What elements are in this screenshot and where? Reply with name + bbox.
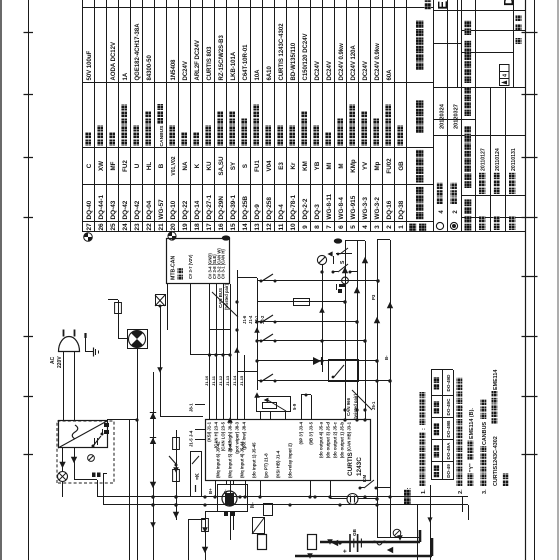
connector X box bbox=[155, 295, 166, 307]
svg-text:EME114 (B).: EME114 (B). bbox=[469, 408, 475, 439]
svg-text:FU2: FU2 bbox=[122, 160, 129, 172]
svg-text:1243C: 1243C bbox=[356, 457, 363, 476]
battery cable bends bbox=[296, 530, 433, 556]
junction dots and wire arrows bbox=[150, 270, 403, 558]
svg-text:MI: MI bbox=[326, 162, 333, 169]
bottom left cable y417 bbox=[417, 505, 419, 560]
fuse FU02 on battery cable bbox=[258, 535, 267, 550]
battery cable B+ thick bbox=[320, 541, 420, 544]
svg-text:B+: B+ bbox=[208, 488, 213, 494]
wire rail y205 bbox=[202, 512, 240, 560]
svg-text:4: 4 bbox=[503, 74, 509, 77]
controller inner pin labels lower bbox=[216, 441, 293, 478]
ground symbol bbox=[86, 348, 99, 357]
svg-text:CAN 966: CAN 966 bbox=[346, 397, 351, 416]
svg-text:EME114: EME114 bbox=[493, 370, 499, 390]
BOM table grid bbox=[82, 0, 434, 232]
charger U box bbox=[58, 421, 109, 449]
svg-text:DO-49B: DO-49B bbox=[446, 420, 451, 438]
svg-text:QGE182-4CH17-38A: QGE182-4CH17-38A bbox=[135, 23, 141, 81]
svg-text:FU02: FU02 bbox=[386, 158, 393, 174]
svg-text:50V 100uF: 50V 100uF bbox=[87, 50, 93, 80]
svg-text:1: 1 bbox=[398, 225, 405, 229]
harness wires to terminals bbox=[342, 241, 368, 420]
controller inner pin labels right bbox=[207, 421, 352, 458]
model number big text EME bbox=[435, 0, 450, 10]
svg-text:DQ-27-1: DQ-27-1 bbox=[206, 195, 213, 220]
svg-text:DQ-258: DQ-258 bbox=[266, 197, 273, 220]
svg-text:DQ-10: DQ-10 bbox=[170, 200, 177, 219]
svg-text:DQ-42: DQ-42 bbox=[134, 200, 141, 219]
svg-text:(do-relay input 2): (do-relay input 2) bbox=[288, 443, 293, 478]
svg-text:8: 8 bbox=[314, 225, 321, 229]
sheet frame bottom border lines with fold ticks bbox=[522, 0, 538, 560]
svg-text:V04: V04 bbox=[266, 160, 273, 172]
svg-text:C: C bbox=[86, 163, 93, 168]
svg-text:20: 20 bbox=[170, 223, 177, 231]
terminal dot on handset box bbox=[222, 235, 230, 240]
long rail y137 bbox=[135, 349, 138, 560]
svg-text:YB: YB bbox=[314, 161, 321, 170]
note 1 connection mini table bbox=[431, 370, 454, 481]
svg-text:C# 3-1 (CAN H): C# 3-1 (CAN H) bbox=[221, 249, 226, 279]
svg-text:15: 15 bbox=[230, 223, 237, 231]
svg-text:GB: GB bbox=[398, 161, 405, 171]
tiller head MTB-CAN box B bbox=[167, 239, 230, 284]
relay box on harness bbox=[329, 360, 359, 382]
svg-text:KU: KU bbox=[206, 161, 213, 170]
svg-text:J8-1: J8-1 bbox=[189, 403, 194, 412]
svg-text:M: M bbox=[338, 163, 345, 168]
svg-text:,: , bbox=[458, 406, 464, 408]
svg-text:SA,SU: SA,SU bbox=[218, 156, 225, 175]
svg-text:J1-10: J1-10 bbox=[204, 375, 209, 386]
svg-text:DQ-2-2: DQ-2-2 bbox=[302, 198, 309, 219]
svg-text:CAN BUS: CAN BUS bbox=[218, 288, 223, 308]
svg-text:S: S bbox=[340, 260, 346, 264]
svg-text:DC24V: DC24V bbox=[327, 61, 333, 80]
svg-text:10: 10 bbox=[290, 223, 297, 231]
arrow on rail y153 bbox=[150, 482, 156, 507]
svg-text:J1-4: J1-4 bbox=[248, 315, 253, 324]
battery GB bbox=[340, 534, 372, 553]
svg-text:J5-1: J5-1 bbox=[371, 401, 376, 410]
rail connectors right bbox=[345, 240, 390, 241]
svg-text:13: 13 bbox=[254, 223, 261, 231]
bottom left cable y430 bbox=[427, 485, 432, 560]
svg-text:26: 26 bbox=[98, 223, 105, 231]
svg-text:AODA DC12V: AODA DC12V bbox=[111, 42, 117, 80]
svg-text:(do output 3) J5-d: (do output 3) J5-d bbox=[326, 422, 331, 459]
diode chain rail y153 bbox=[153, 372, 155, 560]
svg-text:J1-11: J1-11 bbox=[211, 375, 216, 386]
note 2 text bbox=[457, 378, 476, 494]
svg-text:U: U bbox=[134, 163, 141, 168]
svg-text:DQ-4: DQ-4 bbox=[278, 204, 285, 220]
svg-text:DC24V 0.9kw: DC24V 0.9kw bbox=[339, 43, 345, 81]
svg-text:ARL2F DC24V: ARL2F DC24V bbox=[195, 40, 201, 80]
svg-text:LKB-101A: LKB-101A bbox=[231, 51, 237, 80]
wire number labels bbox=[352, 294, 389, 536]
svg-text:DQ-25B: DQ-25B bbox=[242, 196, 249, 220]
svg-text:EME114: EME114 bbox=[435, 0, 450, 10]
svg-text:DQ-38: DQ-38 bbox=[398, 200, 405, 219]
terminal dot near stop switch bbox=[334, 238, 342, 243]
switch rung SU bbox=[257, 299, 347, 306]
svg-text:DQ-9: DQ-9 bbox=[254, 204, 261, 220]
svg-text:(twisted pair): (twisted pair) bbox=[353, 393, 358, 420]
designer signature row bbox=[479, 148, 487, 230]
svg-text:DC24V: DC24V bbox=[363, 61, 369, 80]
svg-text:DQ-22: DQ-22 bbox=[182, 200, 189, 219]
wire rail x63 bbox=[97, 496, 468, 498]
svg-text:1A: 1A bbox=[123, 72, 129, 80]
svg-text:12: 12 bbox=[266, 223, 273, 231]
svg-text:MTB-CAN: MTB-CAN bbox=[171, 256, 177, 280]
svg-text:WG-57: WG-57 bbox=[158, 199, 165, 220]
ladder rung upper bbox=[237, 278, 257, 372]
svg-text:CURTIS 1243C-4302: CURTIS 1243C-4302 bbox=[279, 23, 285, 81]
svg-text:J1-12: J1-12 bbox=[218, 375, 223, 386]
svg-text:M-: M- bbox=[250, 502, 256, 508]
screw terminal near battery bbox=[393, 529, 401, 537]
svg-text:CURTIS1243C-4302: CURTIS1243C-4302 bbox=[493, 436, 499, 486]
svg-text:Mp: Mp bbox=[374, 161, 381, 170]
battery cable B- thick bbox=[295, 555, 432, 558]
svg-text:24: 24 bbox=[122, 223, 129, 231]
svg-text:1N5408: 1N5408 bbox=[171, 59, 177, 81]
svg-text:BD-W135/110: BD-W135/110 bbox=[291, 42, 297, 80]
svg-text:60A: 60A bbox=[387, 69, 393, 81]
svg-text:220V: 220V bbox=[57, 356, 63, 368]
svg-text:6: 6 bbox=[338, 225, 345, 229]
svg-text:DQ-04: DQ-04 bbox=[146, 200, 153, 219]
svg-text:DQ-30: DQ-30 bbox=[501, 0, 516, 6]
svg-text:DQ-39-1: DQ-39-1 bbox=[230, 195, 237, 220]
notes heading shuoming bbox=[404, 487, 413, 504]
long rail y377 bbox=[374, 240, 380, 538]
battery arrows bbox=[332, 540, 393, 553]
svg-text:DC24V 0.9kw: DC24V 0.9kw bbox=[375, 43, 381, 81]
svg-text:DO-49: DO-49 bbox=[446, 464, 451, 478]
CAN wire labels bbox=[242, 315, 265, 324]
charger assembly dashed box bbox=[57, 421, 114, 483]
BOM table row texts bbox=[85, 23, 405, 231]
svg-text:DQ-44-1: DQ-44-1 bbox=[98, 195, 105, 220]
svg-text:18: 18 bbox=[194, 223, 201, 231]
svg-text:4: 4 bbox=[362, 225, 369, 229]
svg-text:(CAN HB) J3-1: (CAN HB) J3-1 bbox=[347, 421, 352, 451]
title block grid bbox=[433, 0, 526, 232]
svg-text:DC24V: DC24V bbox=[183, 61, 189, 80]
svg-text:21: 21 bbox=[158, 223, 165, 231]
controller left pin stubs bbox=[208, 481, 332, 499]
svg-text:2: 2 bbox=[453, 210, 459, 214]
horn NA bbox=[317, 255, 326, 270]
stage mark boxes bbox=[500, 65, 510, 86]
svg-text:DQ-29N: DQ-29N bbox=[218, 196, 225, 220]
svg-text:(twisted pair): (twisted pair) bbox=[224, 283, 229, 310]
svg-text:(KSI HB) J1-4: (KSI HB) J1-4 bbox=[276, 450, 281, 478]
ladder rail y257 bbox=[255, 278, 258, 390]
ladder rail y322 bbox=[322, 265, 324, 372]
svg-text:WG-915: WG-915 bbox=[350, 195, 357, 219]
svg-text:J1-5: J1-5 bbox=[189, 438, 194, 447]
CAN bus wires bbox=[168, 284, 232, 357]
connector box 2 bbox=[264, 504, 273, 516]
svg-text:+: + bbox=[342, 549, 349, 553]
sheet frame top border line with fold ticks bbox=[24, 0, 34, 560]
title block stage mark weight scale headers bbox=[465, 21, 472, 83]
svg-text:CANBUS: CANBUS bbox=[482, 422, 488, 445]
svg-text:FU1: FU1 bbox=[254, 160, 261, 172]
svg-text:KMp: KMp bbox=[350, 159, 357, 173]
motor terminals bbox=[224, 502, 256, 516]
note 1 text bbox=[420, 392, 428, 494]
switch rung S6 bbox=[257, 374, 390, 383]
sheet count cells bbox=[516, 15, 522, 44]
svg-text:CURTIS 803: CURTIS 803 bbox=[207, 46, 213, 81]
svg-text:AC: AC bbox=[50, 356, 56, 364]
svg-text:C150/120 DC24V: C150/120 DC24V bbox=[303, 33, 309, 80]
diode V02 bbox=[150, 438, 156, 445]
rail left bends bbox=[377, 530, 432, 543]
screw balloon near row 27 bbox=[84, 233, 93, 242]
charger output wires bbox=[59, 448, 107, 505]
svg-text:B-: B- bbox=[223, 489, 228, 494]
screw balloon near row 20 bbox=[168, 232, 176, 240]
process signature row bbox=[509, 148, 517, 230]
svg-text:DO-49C: DO-49C bbox=[446, 398, 451, 416]
svg-text:DQ-43: DQ-43 bbox=[110, 200, 117, 219]
svg-text:2.: 2. bbox=[458, 489, 464, 494]
svg-text:20120327: 20120327 bbox=[453, 104, 459, 129]
svg-text:23: 23 bbox=[134, 223, 141, 231]
svg-text::: : bbox=[406, 487, 413, 489]
charger interlock switch bbox=[92, 429, 104, 448]
screw terminal bbox=[88, 455, 95, 462]
X box harness wire bbox=[157, 305, 203, 418]
svg-text:(KSI) J1-1: (KSI) J1-1 bbox=[207, 421, 212, 441]
svg-text:DO-49D: DO-49D bbox=[446, 374, 451, 392]
CAN 966 twisted pair label bbox=[346, 390, 372, 420]
switch rung SY bbox=[257, 315, 359, 324]
svg-text:GB: GB bbox=[352, 528, 357, 536]
svg-text:NA: NA bbox=[182, 161, 189, 170]
contactor KM coil bbox=[330, 494, 379, 505]
svg-text:YV: YV bbox=[362, 161, 369, 170]
revision row 1 bbox=[436, 103, 445, 229]
svg-text:WG-3-3: WG-3-3 bbox=[362, 197, 369, 220]
svg-text:3: 3 bbox=[374, 225, 381, 229]
svg-text:20110131: 20110131 bbox=[511, 148, 517, 171]
AC plug 220V bbox=[59, 330, 87, 422]
fuse FU2 wire bbox=[108, 300, 127, 340]
svg-text:22: 22 bbox=[146, 223, 153, 231]
svg-text:J1-15: J1-15 bbox=[239, 375, 244, 386]
svg-text:3.: 3. bbox=[482, 489, 488, 494]
controller CAN pin stubs bbox=[204, 355, 245, 420]
title block corner blobs bbox=[425, 0, 432, 10]
svg-text:11: 11 bbox=[278, 223, 285, 230]
svg-text:K: K bbox=[194, 163, 201, 168]
svg-text:DQ-14: DQ-14 bbox=[194, 200, 201, 219]
svg-text:14: 14 bbox=[242, 223, 249, 231]
svg-text:WG-8-4: WG-8-4 bbox=[338, 197, 345, 220]
svg-text:(do input 1) J5-45: (do input 1) J5-45 bbox=[252, 442, 257, 478]
svg-text:20110124: 20110124 bbox=[495, 148, 501, 171]
svg-text:E3: E3 bbox=[278, 162, 285, 170]
svg-text:9: 9 bbox=[302, 225, 309, 229]
svg-text:(9P 3') J3-4: (9P 3') J3-4 bbox=[299, 421, 304, 444]
BOM table header row bbox=[409, 21, 426, 231]
svg-text:2: 2 bbox=[386, 225, 393, 229]
switch rung S4 bbox=[257, 334, 367, 343]
svg-text:DQ-16: DQ-16 bbox=[386, 200, 393, 219]
svg-text:XW: XW bbox=[98, 161, 105, 171]
sheet paper bottom edge bbox=[557, 0, 559, 560]
svg-text:DC24V 120A: DC24V 120A bbox=[351, 44, 357, 80]
connector blocks bbox=[92, 473, 101, 478]
svg-text:10A: 10A bbox=[255, 69, 261, 81]
svg-text:(do output 4) J5-a: (do output 4) J5-a bbox=[319, 421, 324, 458]
svg-text:DQ-3: DQ-3 bbox=[314, 204, 321, 220]
aux contact cluster bbox=[327, 248, 352, 257]
revision header row: biaoji chushu fenqu gaiwenjianhao qianming riqi bbox=[465, 87, 472, 230]
throttle pot box bbox=[257, 397, 298, 421]
CAN bus twisted pair label bbox=[212, 283, 238, 317]
svg-text:KM: KM bbox=[302, 161, 309, 171]
svg-text:(Mq input 6) J5-42: (Mq input 6) J5-42 bbox=[216, 441, 221, 478]
contactor KM contact bbox=[359, 475, 391, 490]
svg-text:RZ-15C/W2S-B3: RZ-15C/W2S-B3 bbox=[219, 34, 225, 80]
svg-text:V01,V02: V01,V02 bbox=[171, 156, 177, 175]
fan MF bbox=[128, 330, 148, 349]
svg-text:17: 17 bbox=[206, 223, 213, 231]
svg-text:5: 5 bbox=[350, 225, 357, 229]
fuse FU01 on battery cable bbox=[308, 535, 317, 550]
svg-text:(Mq input 4) J5-44: (Mq input 4) J5-44 bbox=[240, 441, 245, 478]
svg-text:DO-49A: DO-49A bbox=[446, 442, 451, 460]
diode V01 bbox=[150, 413, 156, 420]
fuse FU01 row bbox=[169, 430, 179, 520]
sheet frame top edge line bbox=[0, 0, 2, 560]
svg-text:P3: P3 bbox=[371, 294, 376, 300]
long rail y390 bbox=[387, 240, 393, 538]
long rail y130 bbox=[129, 420, 131, 560]
controller J3 stubs bbox=[301, 394, 312, 421]
wire rail x55 bbox=[103, 504, 468, 506]
svg-text:DQ-42: DQ-42 bbox=[122, 200, 129, 219]
svg-text:=K: =K bbox=[195, 473, 201, 480]
fan supply wire bbox=[107, 349, 138, 421]
svg-text:J1-14: J1-14 bbox=[232, 375, 237, 386]
svg-text:J1-6: J1-6 bbox=[242, 315, 247, 324]
svg-text:"Y": "Y" bbox=[469, 463, 475, 472]
svg-text:16: 16 bbox=[218, 223, 225, 231]
svg-text:7: 7 bbox=[326, 225, 333, 229]
controller top pin stubs bbox=[189, 403, 206, 447]
svg-text:84300-50: 84300-50 bbox=[147, 54, 153, 80]
battery inductor bbox=[372, 541, 395, 545]
svg-text:(do output 2) J5-c: (do output 2) J5-c bbox=[333, 421, 338, 458]
svg-text:(9B 3') J3-5: (9B 3') J3-5 bbox=[309, 421, 314, 444]
svg-text:HL: HL bbox=[146, 162, 153, 170]
svg-text:DC24V: DC24V bbox=[315, 61, 321, 80]
svg-text:19: 19 bbox=[182, 223, 189, 231]
rail bottom bends bbox=[463, 497, 469, 520]
svg-text:SY: SY bbox=[230, 161, 237, 170]
svg-text:DQ-40: DQ-40 bbox=[86, 200, 93, 219]
svg-text:20110127: 20110127 bbox=[481, 148, 487, 171]
svg-text:CURTIS: CURTIS bbox=[347, 451, 354, 476]
revision row 2 bbox=[450, 104, 459, 229]
svg-text::: : bbox=[421, 428, 427, 430]
svg-text:(Mq input 5) J5-43: (Mq input 5) J5-43 bbox=[228, 441, 233, 478]
checker signature row bbox=[494, 148, 502, 230]
svg-text:6A10: 6A10 bbox=[267, 65, 273, 80]
key switch K box bbox=[191, 452, 202, 497]
svg-text:1.: 1. bbox=[421, 489, 427, 494]
ladder rail y237 bbox=[235, 270, 238, 372]
svg-text:(CAN LO) 23-5: (CAN LO) 23-5 bbox=[221, 421, 226, 451]
connector box near edge bbox=[252, 518, 265, 535]
svg-text:J1-13: J1-13 bbox=[225, 375, 230, 386]
svg-text:B: B bbox=[158, 163, 165, 168]
emergency stop S bbox=[332, 256, 358, 274]
svg-text:DQ-78-1: DQ-78-1 bbox=[290, 195, 297, 220]
svg-text:27: 27 bbox=[86, 223, 93, 231]
note 3 text bbox=[481, 370, 509, 494]
svg-text:C# 3-7 (V2V): C# 3-7 (V2V) bbox=[188, 254, 193, 279]
svg-text:20120324: 20120324 bbox=[439, 103, 445, 129]
AC plug label 220V bbox=[50, 356, 63, 368]
pump motor Mp bbox=[218, 481, 248, 540]
svg-text:B-: B- bbox=[384, 355, 389, 360]
svg-text:MF: MF bbox=[110, 161, 117, 170]
svg-text:WG-8-11: WG-8-11 bbox=[326, 193, 333, 219]
svg-text:25: 25 bbox=[110, 223, 117, 231]
svg-text:(po PT) 21-8: (po PT) 21-8 bbox=[264, 453, 269, 478]
svg-text:S: S bbox=[242, 164, 249, 168]
switch rung S5 bbox=[257, 357, 377, 365]
drawing number big text DQ bbox=[501, 0, 516, 6]
svg-text:(do output 1) J5-b: (do output 1) J5-b bbox=[340, 422, 345, 459]
wire segs left bbox=[188, 512, 234, 560]
svg-text:4: 4 bbox=[439, 210, 445, 214]
svg-text:C64T-10R-01: C64T-10R-01 bbox=[243, 44, 249, 81]
switch rung SA bbox=[257, 274, 380, 293]
indicator lamp HL bbox=[58, 448, 68, 497]
svg-text:Kr: Kr bbox=[290, 162, 297, 169]
svg-text:WG-3-2: WG-3-2 bbox=[374, 197, 381, 220]
svg-text:CANBUS: CANBUS bbox=[159, 125, 165, 147]
svg-text:J-4: J-4 bbox=[189, 430, 194, 437]
op-box controller CURTIS 1243C bbox=[206, 420, 371, 481]
svg-text:5-9: 5-9 bbox=[292, 403, 297, 410]
